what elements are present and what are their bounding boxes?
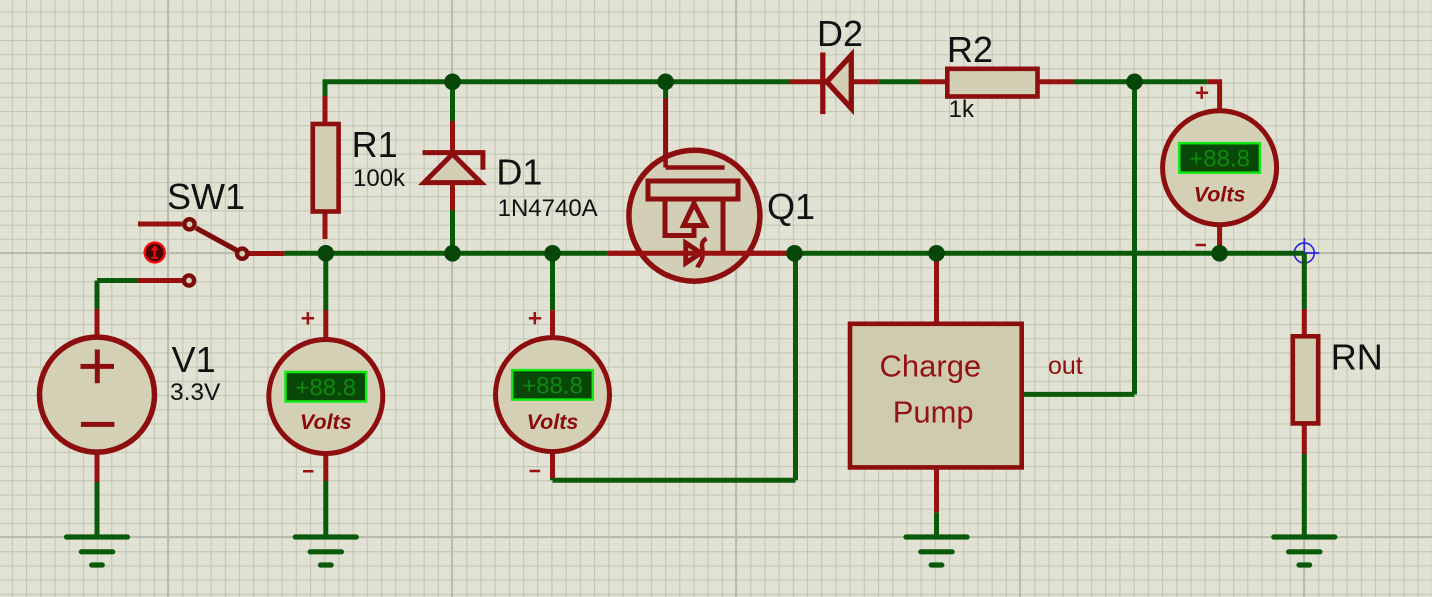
svg-text:Charge: Charge	[880, 348, 982, 383]
svg-text:SW1: SW1	[167, 176, 245, 217]
svg-text:1N4740A: 1N4740A	[498, 195, 598, 222]
svg-text:Volts: Volts	[300, 410, 352, 434]
svg-text:Volts: Volts	[527, 410, 579, 434]
svg-text:+88.8: +88.8	[1189, 146, 1250, 173]
svg-text:out: out	[1048, 352, 1083, 380]
svg-text:+88.8: +88.8	[522, 373, 583, 400]
svg-text:R2: R2	[947, 29, 993, 70]
svg-text:D2: D2	[817, 13, 863, 54]
svg-text:+88.8: +88.8	[295, 375, 356, 402]
svg-text:Q1: Q1	[767, 186, 815, 227]
svg-text:Volts: Volts	[1194, 183, 1246, 207]
svg-text:1k: 1k	[949, 96, 975, 123]
svg-text:V1: V1	[172, 339, 216, 380]
svg-text:Pump: Pump	[893, 395, 974, 430]
svg-text:3.3V: 3.3V	[170, 379, 221, 406]
svg-text:100k: 100k	[353, 165, 406, 192]
svg-text:D1: D1	[496, 152, 542, 193]
svg-text:R1: R1	[352, 124, 398, 165]
svg-text:RN: RN	[1331, 337, 1383, 378]
